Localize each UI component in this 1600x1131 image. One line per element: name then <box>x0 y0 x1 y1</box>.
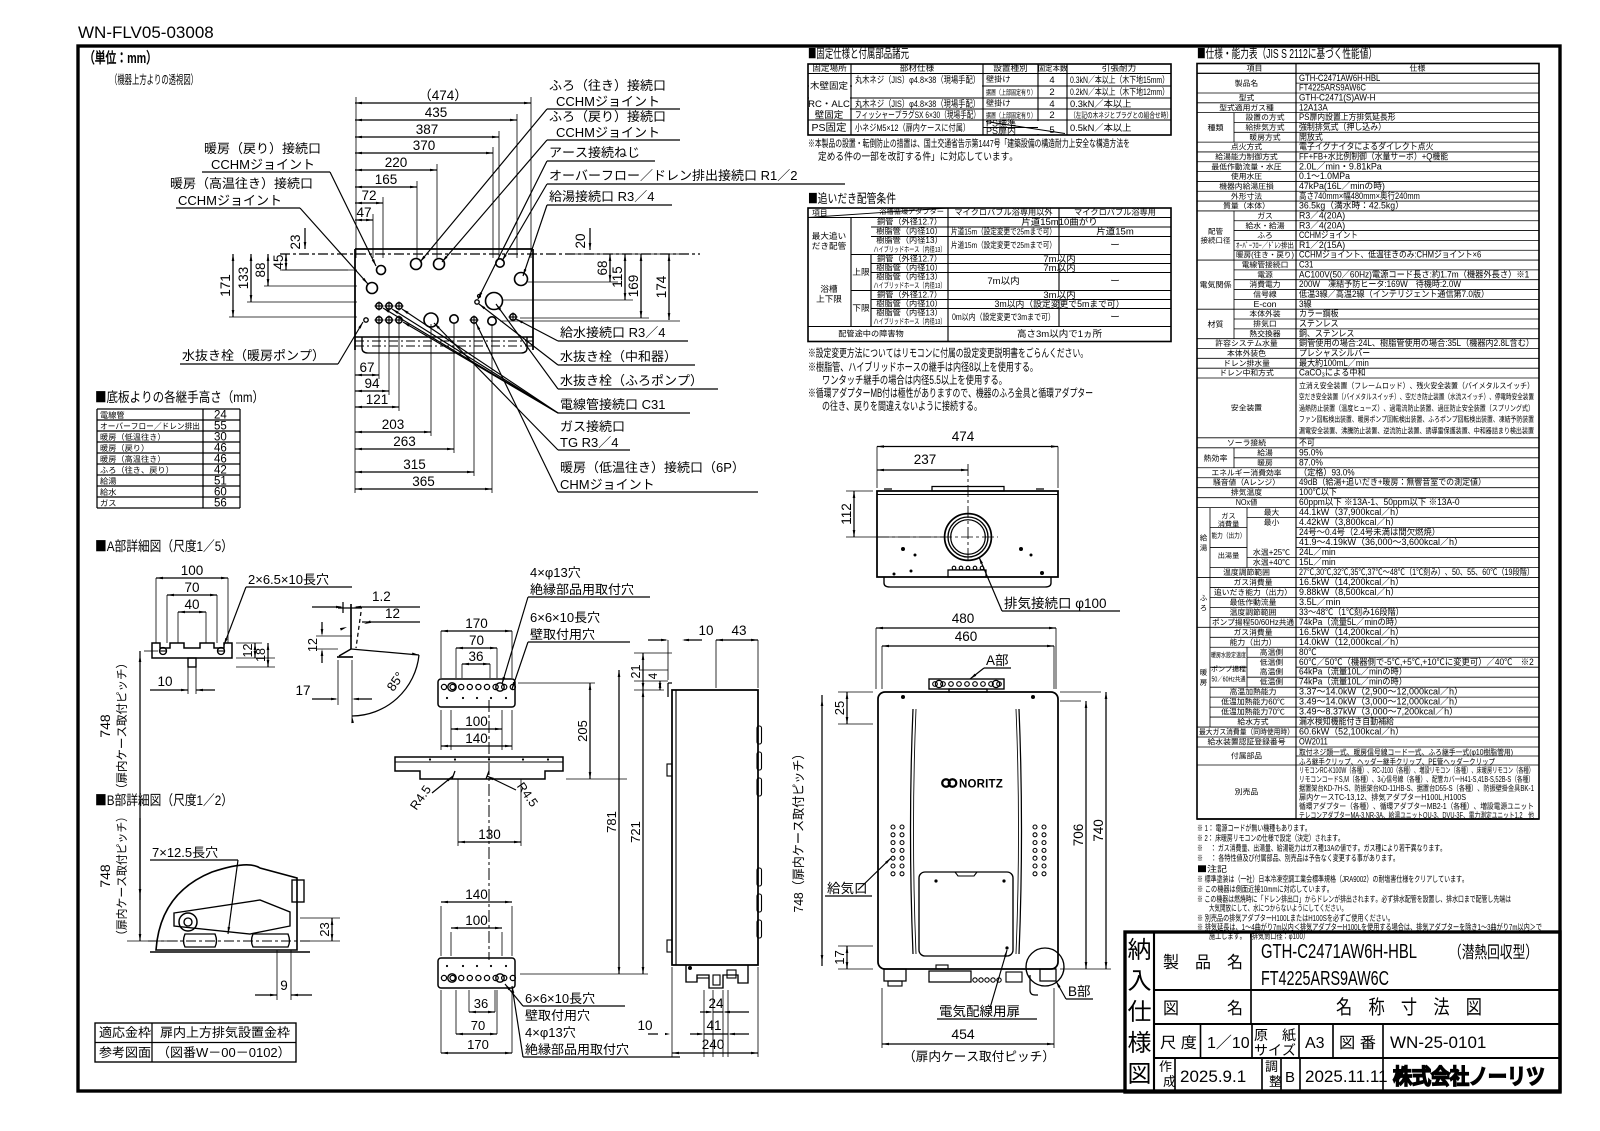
svg-text:10: 10 <box>637 1014 652 1034</box>
svg-text:WN-25-0101: WN-25-0101 <box>1390 1028 1486 1053</box>
svg-text:（機器上方よりの透視図）: （機器上方よりの透視図） <box>110 69 198 88</box>
svg-text:40: 40 <box>184 593 199 613</box>
svg-text:ファン回転検出装置、暖房ポンプ回転検出装置、ふろポンプ回転検: ファン回転検出装置、暖房ポンプ回転検出装置、ふろポンプ回転検出装置、凍結予防装置 <box>1299 414 1534 425</box>
svg-text:0.3kN／本以上: 0.3kN／本以上 <box>1070 96 1131 110</box>
svg-text:12: 12 <box>385 602 400 622</box>
svg-text:■仕様・能力表（JIS S 2112に基づく性能値）: ■仕様・能力表（JIS S 2112に基づく性能値） <box>1197 43 1377 62</box>
svg-text:25: 25 <box>829 701 848 715</box>
svg-text:474: 474 <box>952 425 975 445</box>
svg-text:■A部詳細図（尺度1／5）: ■A部詳細図（尺度1／5） <box>95 536 233 556</box>
svg-text:最小: 最小 <box>1264 517 1280 528</box>
svg-text:消費量: 消費量 <box>1218 520 1240 530</box>
svg-text:電気関係: 電気関係 <box>1200 280 1232 291</box>
svg-text:7m以内: 7m以内 <box>987 273 1019 287</box>
svg-text:壁取付用穴: 壁取付用穴 <box>530 624 595 643</box>
svg-text:CCHMジョイント: CCHMジョイント <box>178 190 282 209</box>
svg-text:能力（出力）: 能力（出力） <box>1212 531 1246 541</box>
svg-text:4: 4 <box>645 672 661 679</box>
svg-text:■底板よりの各継手高さ（mm）: ■底板よりの各継手高さ（mm） <box>95 387 264 407</box>
svg-text:10: 10 <box>157 670 172 690</box>
svg-text:A部: A部 <box>986 649 1009 669</box>
svg-text:扉内上方排気設置金枠: 扉内上方排気設置金枠 <box>160 1022 290 1041</box>
svg-text:370: 370 <box>413 134 436 154</box>
svg-text:片道15m: 片道15m <box>1096 224 1134 238</box>
svg-text:壁掛け: 壁掛け <box>986 97 1011 109</box>
svg-text:112: 112 <box>835 503 855 525</box>
svg-text:絶縁部品用取付穴: 絶縁部品用取付穴 <box>530 579 634 598</box>
svg-text:参考図面: 参考図面 <box>99 1042 151 1061</box>
svg-text:上限: 上限 <box>852 266 870 278</box>
svg-text:121: 121 <box>366 388 389 408</box>
svg-text:ー: ー <box>1110 309 1120 323</box>
svg-text:低温3線／高温2線（インテリジェント通信第7.0版）: 低温3線／高温2線（インテリジェント通信第7.0版） <box>1299 287 1489 300</box>
svg-text:130: 130 <box>478 823 501 843</box>
svg-text:適応金枠: 適応金枠 <box>99 1022 151 1041</box>
svg-text:ポンプ揚程: ポンプ揚程 <box>1211 665 1246 675</box>
svg-text:20: 20 <box>569 233 589 248</box>
svg-text:排気接続口 φ100: 排気接続口 φ100 <box>1004 592 1107 612</box>
svg-text:12: 12 <box>302 638 321 652</box>
svg-text:0m以内（設定変更で3mまで可）: 0m以内（設定変更で3mまで可） <box>952 310 1055 323</box>
svg-text:FT4225ARS9AW6C: FT4225ARS9AW6C <box>1261 962 1389 991</box>
svg-text:■追いだき配管条件: ■追いだき配管条件 <box>808 188 896 207</box>
svg-text:壁固定: 壁固定 <box>815 107 844 121</box>
svg-text:0.5kN／本以上: 0.5kN／本以上 <box>1070 120 1131 134</box>
svg-text:漏電安全装置、沸騰防止装置、逆流防止装置、誘導雷保護装置、中: 漏電安全装置、沸騰防止装置、逆流防止装置、誘導雷保護装置、中和器詰まり検出装置 <box>1299 425 1534 436</box>
svg-text:絶縁部品用取付穴: 絶縁部品用取付穴 <box>525 1039 629 1058</box>
svg-text:（扉内ケース取付ピッチ）: （扉内ケース取付ピッチ） <box>903 1046 1055 1065</box>
svg-text:房: 房 <box>1200 677 1208 688</box>
svg-text:706: 706 <box>1067 824 1087 847</box>
svg-text:固定場所: 固定場所 <box>812 62 847 74</box>
svg-text:空だき安全装置（バイメタルスイッチ）、空だき防止装置（水流ス: 空だき安全装置（バイメタルスイッチ）、空だき防止装置（水流スイッチ）、停電時安全… <box>1299 392 1534 403</box>
svg-text:定める件の一部を改訂する件」に対応しています。: 定める件の一部を改訂する件」に対応しています。 <box>818 149 1018 164</box>
svg-text:成: 成 <box>1163 1071 1176 1090</box>
svg-text:263: 263 <box>393 430 416 450</box>
svg-text:23: 23 <box>284 234 304 249</box>
svg-text:100: 100 <box>465 909 488 929</box>
svg-text:CCHMジョイント: CCHMジョイント <box>211 154 315 173</box>
svg-text:7m以内: 7m以内 <box>1043 260 1075 274</box>
svg-text:140: 140 <box>465 883 488 903</box>
svg-text:（図番W－00－0102）: （図番W－00－0102） <box>157 1042 291 1061</box>
svg-text:23: 23 <box>314 922 333 936</box>
svg-text:ー: ー <box>1110 237 1120 251</box>
svg-text:2×6.5×10長穴: 2×6.5×10長穴 <box>248 569 329 588</box>
svg-text:2025.9.1: 2025.9.1 <box>1180 1062 1246 1087</box>
svg-text:（潜熱回収型）: （潜熱回収型） <box>1449 938 1538 963</box>
svg-text:（単位：mm）: （単位：mm） <box>84 47 157 68</box>
svg-text:整: 整 <box>1269 1071 1282 1090</box>
svg-text:※ ： 各特性値及び付属部品、別売品は予告なく変更する事が: ※ ： 各特性値及び付属部品、別売品は予告なく変更する事があります。 <box>1197 852 1399 864</box>
svg-text:ドレン中和方式: ドレン中和方式 <box>1219 368 1274 379</box>
svg-text:TG R3／4: TG R3／4 <box>560 432 619 451</box>
svg-text:製品名: 製品名 <box>1235 78 1258 89</box>
svg-text:133: 133 <box>232 267 252 290</box>
svg-text:テレコンアダプターMA-3,NR-3A、給湯ユニットQU-3: テレコンアダプターMA-3,NR-3A、給湯ユニットQU-3、DVU-3F、電力… <box>1299 810 1534 821</box>
svg-text:（扉内ケース取付ピッチ）: （扉内ケース取付ピッチ） <box>113 811 130 941</box>
svg-text:配管途中の障害物: 配管途中の障害物 <box>838 328 904 340</box>
svg-text:出湯量: 出湯量 <box>1218 551 1240 561</box>
svg-text:50／60Hz共通: 50／60Hz共通 <box>1212 675 1246 685</box>
svg-text:47: 47 <box>356 201 371 221</box>
svg-text:ー: ー <box>1110 273 1120 287</box>
svg-text:OW2011: OW2011 <box>1299 735 1328 748</box>
svg-text:尺 度: 尺 度 <box>1160 1031 1197 1053</box>
svg-text:水抜き栓（暖房ポンプ）: 水抜き栓（暖房ポンプ） <box>182 345 325 364</box>
svg-text:給湯接続口 R3／4: 給湯接続口 R3／4 <box>549 186 654 205</box>
svg-text:7×12.5長穴: 7×12.5長穴 <box>152 842 218 861</box>
svg-text:アース接続ねじ: アース接続ねじ <box>549 142 640 161</box>
svg-text:17: 17 <box>829 950 848 964</box>
svg-text:PS固定: PS固定 <box>811 120 847 135</box>
svg-text:ハイブリッドホース（内径13）: ハイブリッドホース（内径13） <box>874 316 946 327</box>
svg-text:748: 748 <box>95 864 115 888</box>
svg-text:立消え安全装置（フレームロッド）、残火安全装置（バイメタルス: 立消え安全装置（フレームロッド）、残火安全装置（バイメタルスイッチ） <box>1299 380 1534 391</box>
svg-text:高さ3m以内で1ヵ所: 高さ3m以内で1ヵ所 <box>1017 326 1102 340</box>
svg-text:様: 様 <box>1128 1023 1152 1058</box>
svg-text:入: 入 <box>1128 961 1152 996</box>
svg-text:仕様: 仕様 <box>1410 63 1426 74</box>
svg-text:41: 41 <box>706 1014 721 1034</box>
svg-text:（扉内ケース取付ピッチ）: （扉内ケース取付ピッチ） <box>113 657 130 795</box>
svg-text:43: 43 <box>731 619 746 639</box>
svg-text:480: 480 <box>952 607 975 627</box>
svg-text:721: 721 <box>625 821 644 843</box>
svg-text:9: 9 <box>280 974 288 994</box>
svg-text:70: 70 <box>471 1015 485 1034</box>
svg-text:17: 17 <box>295 679 310 699</box>
svg-text:CaCO₃による中和: CaCO₃による中和 <box>1299 366 1366 379</box>
svg-text:別売品: 別売品 <box>1235 787 1259 798</box>
svg-text:748（扉内ケース取付ピッチ）: 748（扉内ケース取付ピッチ） <box>788 748 807 913</box>
svg-text:片道15m（設定変更で25mまで可）: 片道15m（設定変更で25mまで可） <box>951 226 1056 238</box>
svg-text:NORITZ: NORITZ <box>959 779 1003 791</box>
svg-text:給水接続口 R3／4: 給水接続口 R3／4 <box>560 322 665 341</box>
svg-text:B部: B部 <box>1068 980 1091 1000</box>
svg-text:740: 740 <box>1087 819 1107 842</box>
svg-text:GTH-C2471AW6H-HBL: GTH-C2471AW6H-HBL <box>1261 935 1417 964</box>
svg-text:WN-FLV05-03008: WN-FLV05-03008 <box>78 18 214 43</box>
svg-text:過熱防止装置（温度ヒューズ）、過電流防止装置、過圧防止安全装: 過熱防止装置（温度ヒューズ）、過電流防止装置、過圧防止安全装置（スプリング式） <box>1299 403 1534 414</box>
svg-text:の往き、戻りを間違えないように接続する。: の往き、戻りを間違えないように接続する。 <box>822 398 982 414</box>
svg-text:木壁固定: 木壁固定 <box>810 78 849 92</box>
svg-text:接続口径: 接続口径 <box>1201 235 1231 246</box>
svg-text:171: 171 <box>214 274 234 297</box>
svg-text:165: 165 <box>375 168 398 188</box>
svg-text:給水装置認証登録番号: 給水装置認証登録番号 <box>1208 737 1286 748</box>
svg-text:項目: 項目 <box>1247 63 1263 74</box>
svg-text:18: 18 <box>250 648 269 662</box>
svg-text:CCHMジョイント、低温往きのみ:CHMジョイント×6: CCHMジョイント、低温往きのみ:CHMジョイント×6 <box>1299 248 1481 261</box>
svg-text:748: 748 <box>95 714 115 738</box>
svg-text:■B部詳細図（尺度1／2）: ■B部詳細図（尺度1／2） <box>95 790 233 810</box>
svg-text:図 名: 図 名 <box>1163 994 1243 1019</box>
svg-text:電線管接続口 C31: 電線管接続口 C31 <box>560 394 665 413</box>
svg-text:B: B <box>1285 1066 1295 1087</box>
svg-text:88: 88 <box>249 262 269 277</box>
svg-text:付属部品: 付属部品 <box>1231 751 1262 762</box>
svg-text:水抜き栓（ふろポンプ）: 水抜き栓（ふろポンプ） <box>560 370 703 389</box>
svg-text:CHMジョイント: CHMジョイント <box>560 474 655 493</box>
svg-text:36: 36 <box>468 645 483 665</box>
svg-text:壁掛け: 壁掛け <box>986 73 1011 85</box>
svg-text:781: 781 <box>601 811 620 833</box>
svg-text:電気配線用扉: 電気配線用扉 <box>939 1000 1020 1020</box>
svg-text:10: 10 <box>698 619 713 639</box>
svg-text:5: 5 <box>1049 122 1054 136</box>
svg-text:24: 24 <box>708 992 724 1012</box>
svg-text:174: 174 <box>650 275 670 298</box>
svg-text:3m以内（設定変更で5mまで可）: 3m以内（設定変更で5mまで可） <box>994 297 1124 310</box>
svg-text:株式会社ノーリツ: 株式会社ノーリツ <box>1393 1060 1545 1091</box>
svg-text:205: 205 <box>572 720 591 742</box>
svg-text:図: 図 <box>1128 1054 1152 1089</box>
svg-text:365: 365 <box>412 470 435 490</box>
svg-text:140: 140 <box>465 727 488 747</box>
svg-text:名 称 寸 法 図: 名 称 寸 法 図 <box>1336 991 1482 1020</box>
svg-text:21: 21 <box>625 665 644 679</box>
svg-text:水抜き栓（中和器）: 水抜き栓（中和器） <box>560 346 677 365</box>
svg-text:36: 36 <box>474 993 488 1012</box>
svg-text:A3: A3 <box>1305 1029 1325 1053</box>
svg-text:項目: 項目 <box>812 208 828 219</box>
svg-text:NOx値: NOx値 <box>1236 497 1258 508</box>
svg-text:■固定仕様と付属部品諸元: ■固定仕様と付属部品諸元 <box>808 43 909 62</box>
svg-text:169: 169 <box>622 275 642 298</box>
svg-text:上下限: 上下限 <box>816 293 842 305</box>
svg-text:丸木ネジ（JIS）φ4.8×38（現場手配）: 丸木ネジ（JIS）φ4.8×38（現場手配） <box>855 72 980 86</box>
svg-text:45: 45 <box>267 254 287 269</box>
svg-text:安全装置: 安全装置 <box>1231 402 1262 413</box>
svg-text:1／10: 1／10 <box>1207 1029 1250 1053</box>
svg-text:170: 170 <box>467 1034 489 1053</box>
svg-text:オーバーフロー／ドレン排出接続口 R1／2: オーバーフロー／ドレン排出接続口 R1／2 <box>549 165 797 184</box>
svg-text:材質: 材質 <box>1208 319 1224 330</box>
svg-text:CCHMジョイント: CCHMジョイント <box>556 122 660 141</box>
svg-text:図 番: 図 番 <box>1339 1031 1376 1053</box>
svg-text:454: 454 <box>951 1024 975 1044</box>
svg-text:種類: 種類 <box>1208 122 1224 133</box>
svg-text:237: 237 <box>914 448 937 468</box>
svg-text:仕: 仕 <box>1128 992 1152 1027</box>
svg-text:暖房水設定温度: 暖房水設定温度 <box>1211 651 1246 661</box>
svg-text:湯: 湯 <box>1200 543 1208 554</box>
svg-text:だき配管: だき配管 <box>812 240 847 252</box>
svg-text:ろ: ろ <box>1200 602 1208 613</box>
svg-text:熱効率: 熱効率 <box>1204 453 1228 464</box>
svg-text:製 品 名: 製 品 名 <box>1163 948 1243 973</box>
svg-text:2025.11.11: 2025.11.11 <box>1305 1062 1388 1087</box>
svg-text:小ネジM5×12（扉内ケースに付属）: 小ネジM5×12（扉内ケースに付属） <box>855 120 970 134</box>
svg-text:460: 460 <box>955 625 978 645</box>
svg-text:片道15m（設定変更で25mまで可）: 片道15m（設定変更で25mまで可） <box>951 239 1056 251</box>
svg-text:下限: 下限 <box>852 302 870 314</box>
svg-text:2: 2 <box>1049 107 1054 121</box>
svg-text:納: 納 <box>1128 930 1152 965</box>
svg-text:フィッシャープラグSX 6×30（現場手配）: フィッシャープラグSX 6×30（現場手配） <box>855 107 980 121</box>
